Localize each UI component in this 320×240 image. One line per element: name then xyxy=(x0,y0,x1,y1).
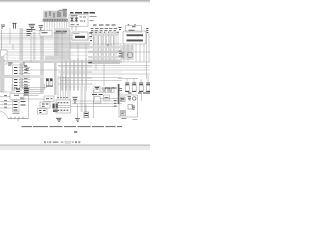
right small dash xyxy=(133,119,138,121)
harness band center-bottom 2 xyxy=(84,86,86,112)
G2 riser xyxy=(77,104,79,118)
label row data link xyxy=(92,88,117,95)
relay area wash right xyxy=(120,45,134,60)
X2 right labels xyxy=(21,102,26,106)
page number xyxy=(74,131,77,133)
battery GND symbol G1 xyxy=(56,118,62,121)
sensor B5 xyxy=(30,30,44,31)
caption text line xyxy=(22,126,123,128)
ignition switch box xyxy=(40,31,52,37)
subtitle label xyxy=(71,15,78,17)
feed wires into module xyxy=(0,84,14,93)
aux box A2 xyxy=(109,88,115,93)
resistor block R1 xyxy=(72,32,88,40)
connector row X4 xyxy=(56,108,71,114)
relay K0 contacts xyxy=(80,17,87,22)
thick stub xyxy=(118,84,120,104)
secondary bus wires xyxy=(0,31,150,88)
harness band F (wide right) xyxy=(88,60,120,65)
X5 element 2 xyxy=(128,97,132,100)
center weave horizontals xyxy=(58,65,92,85)
relay box K1 xyxy=(126,26,142,33)
X1 pin dots xyxy=(19,67,20,89)
M3 marks xyxy=(121,53,124,57)
status bar background xyxy=(0,146,150,150)
window top border xyxy=(0,0,150,3)
harness wash A xyxy=(55,28,70,62)
X3 drops xyxy=(58,76,70,100)
X2 left leads xyxy=(0,97,13,109)
M2 contacts xyxy=(39,111,46,113)
X5 bottom stub xyxy=(122,118,127,120)
capacitor pair C1 C2 xyxy=(46,79,53,87)
aux box A1 xyxy=(102,88,108,93)
wire end terminals xyxy=(114,101,116,107)
staircase wire labels xyxy=(20,87,28,98)
node dots near R1 xyxy=(89,33,92,41)
right module box X5 xyxy=(119,95,138,117)
module X2 body xyxy=(10,94,24,100)
sensor B3 xyxy=(29,24,36,32)
main bus wires (horizontal) xyxy=(0,34,150,81)
toolbar icons xyxy=(44,141,80,143)
X5 element 3 xyxy=(132,106,136,109)
sensor B1 xyxy=(1,25,5,28)
connector row X3 xyxy=(56,100,71,106)
fusible link box FL xyxy=(1,50,8,64)
X2 relay stack xyxy=(14,102,18,111)
ground G2 xyxy=(75,119,80,122)
ECU connector ladder X1 xyxy=(0,56,22,92)
control box U1 xyxy=(69,15,88,26)
fuse row body xyxy=(91,29,118,31)
junction hook xyxy=(24,62,27,66)
ignition coil Q4 (partial) xyxy=(146,83,150,92)
mid-right bus wires xyxy=(70,99,122,107)
JB drop wires xyxy=(132,44,144,62)
fuse pin ticks xyxy=(92,33,118,35)
harness band extension xyxy=(30,75,44,78)
junction block JB (rounded) xyxy=(123,31,146,44)
harness trunk T1b xyxy=(33,32,35,62)
relay K2 xyxy=(73,97,78,103)
harness wash C xyxy=(45,56,70,62)
X5 element 4 xyxy=(121,112,125,114)
U1 bottom pins xyxy=(71,24,80,26)
K1 label xyxy=(129,27,136,30)
harness band across ECU xyxy=(0,75,30,78)
sensor cluster right-mid xyxy=(94,87,100,93)
U1 drop wires xyxy=(67,26,77,30)
JB bus bar 1 xyxy=(127,34,144,36)
node dash left of plaid xyxy=(89,51,93,53)
ignition coil Q2 xyxy=(132,83,136,92)
K1 top tabs xyxy=(129,24,136,26)
ignition coil Q1 xyxy=(125,83,129,92)
node labels right edge xyxy=(119,51,122,56)
junction mark xyxy=(89,62,93,64)
label text stack xyxy=(27,30,32,36)
harness wash E (right plaid horizontals) xyxy=(88,46,122,63)
harness trunk T3 xyxy=(54,33,57,95)
harness wash D (right plaid verticals) xyxy=(93,31,115,64)
connector strip J1 (comb) xyxy=(43,9,68,21)
center weave verticals xyxy=(61,58,87,91)
sensor B2 xyxy=(13,23,17,28)
harness wash B xyxy=(60,42,90,49)
D1 mark xyxy=(46,98,53,100)
status bar divider xyxy=(0,144,150,146)
bus riser xyxy=(28,88,30,119)
fan motor M3 xyxy=(127,52,133,58)
wire drops from fuse row xyxy=(94,35,119,63)
X2 title xyxy=(14,94,19,96)
trapezoid sensor xyxy=(94,97,102,104)
staircase wires xyxy=(20,84,50,99)
wire drops from J1 xyxy=(45,21,67,33)
X2 stack outline xyxy=(13,100,20,112)
X5 lamp xyxy=(133,97,136,100)
R1 label xyxy=(74,32,80,34)
solenoid L1 xyxy=(84,105,89,118)
sensor cluster right-mid 2 xyxy=(103,89,113,91)
right wire drop xyxy=(141,93,143,101)
fuse row lower glyphs xyxy=(91,31,120,33)
harness trunk T2 xyxy=(40,32,44,94)
module M1 xyxy=(40,102,50,108)
coil feed wire xyxy=(118,75,148,83)
U1 side labels xyxy=(90,17,97,21)
switch S1 xyxy=(71,17,74,22)
left edge riser xyxy=(1,30,3,56)
X5 sub box 1 xyxy=(121,97,126,102)
X5 top labels xyxy=(128,92,150,94)
resistor pack R2 xyxy=(53,104,58,113)
title label text xyxy=(70,12,95,14)
X5 sub box 2 xyxy=(128,105,133,110)
X1 wire labels xyxy=(24,67,28,88)
X5 element 1 xyxy=(121,98,124,100)
X5 sub box 3 xyxy=(121,111,126,116)
JB bus bar 2 xyxy=(127,40,144,42)
switch S2 xyxy=(75,17,78,22)
extra label marks xyxy=(26,69,30,71)
harness band center-bottom xyxy=(81,86,83,112)
aux box A3 xyxy=(104,95,110,100)
center drop wire xyxy=(93,90,95,118)
branch verticals xyxy=(10,28,149,90)
label row mid-left xyxy=(42,31,68,33)
label row mid-left 2 xyxy=(54,32,67,34)
ignition coil Q3 xyxy=(139,83,143,92)
A3 mark xyxy=(105,97,109,99)
ground lead diagonal xyxy=(0,111,8,119)
module M2 xyxy=(38,109,48,115)
X1 stub wires xyxy=(22,68,30,89)
X2 bottom label xyxy=(13,112,20,114)
relay module bottom-left: top labels xyxy=(16,89,29,93)
X1 pin elements xyxy=(14,68,17,89)
X2 lead labels xyxy=(4,96,7,108)
harness trunk T1 (vertical gray band left) xyxy=(20,28,24,88)
ground bus GB1 xyxy=(8,117,29,122)
diode box D1 xyxy=(44,96,54,102)
battery terminal marks xyxy=(119,28,149,33)
harness band G (wide left) xyxy=(0,60,88,63)
sensor B4 xyxy=(39,26,44,33)
R1 element xyxy=(75,36,85,38)
node dash right plaid xyxy=(106,44,112,46)
fuse row F1..F4 labels xyxy=(93,24,116,26)
small text left of coils xyxy=(119,89,122,91)
connector row X3 labels xyxy=(57,97,68,99)
M1 contacts xyxy=(42,104,48,106)
